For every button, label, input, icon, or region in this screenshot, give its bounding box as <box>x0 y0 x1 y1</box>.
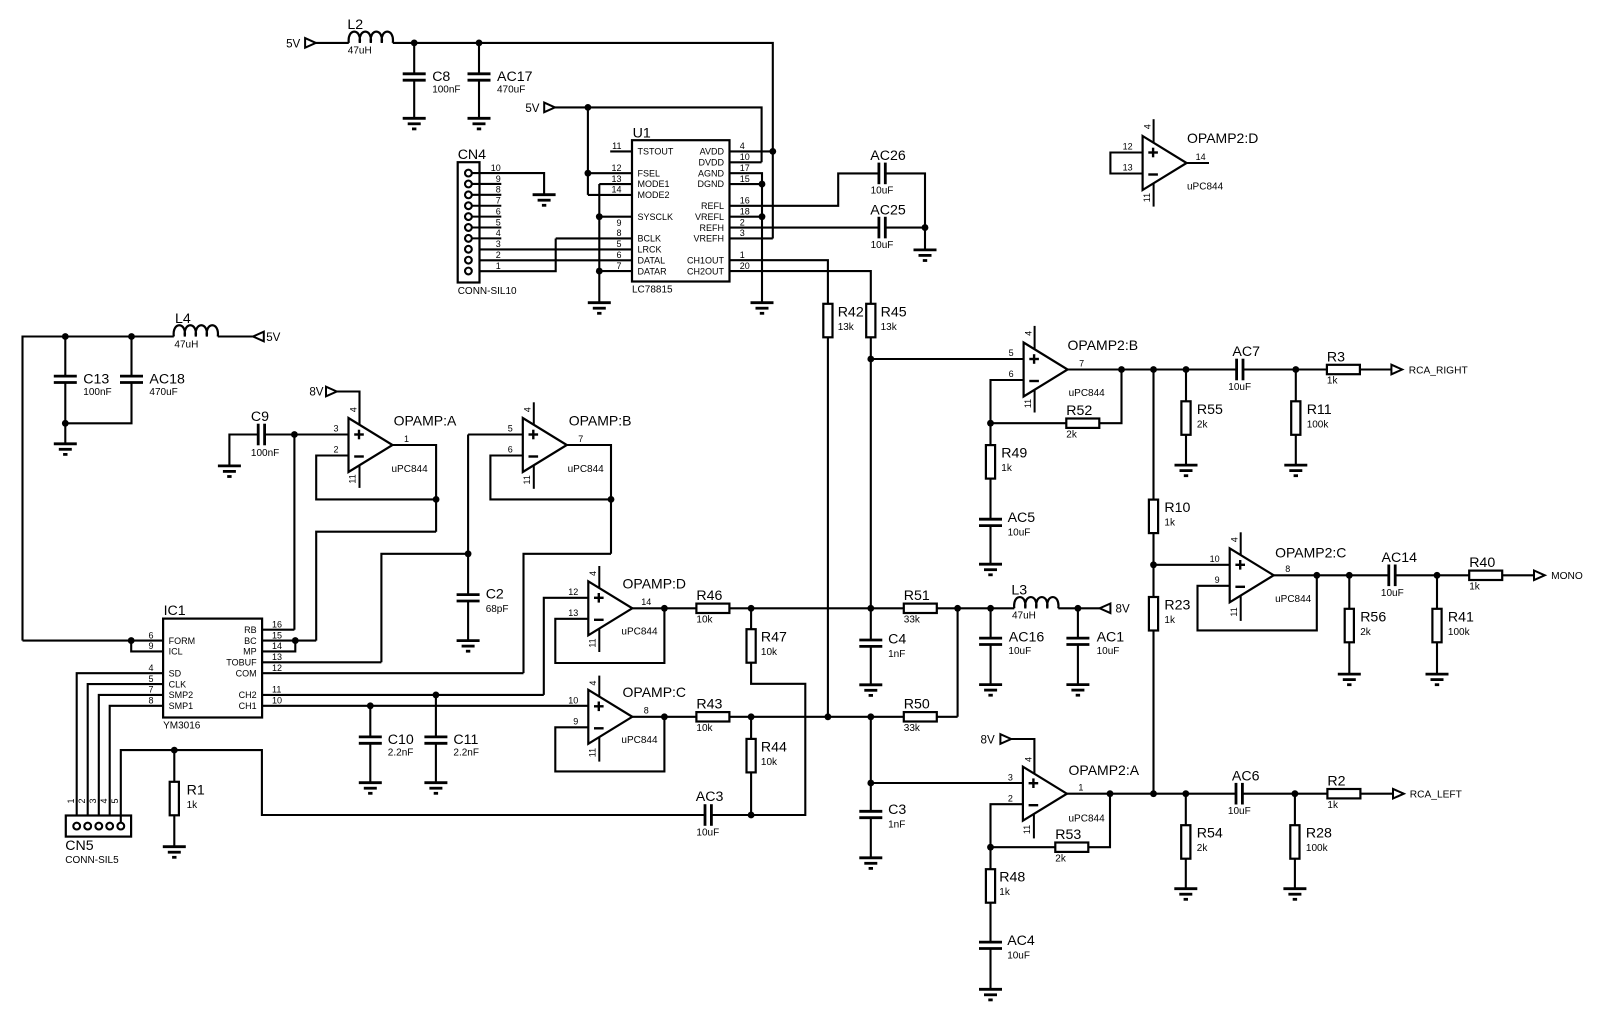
resistor R54 <box>1181 825 1223 859</box>
svg-text:100k: 100k <box>1448 627 1471 638</box>
wire C11 stem <box>435 695 437 737</box>
svg-text:C13: C13 <box>83 371 109 387</box>
svg-text:9: 9 <box>616 218 621 228</box>
CN4 pin 5 stub <box>472 217 502 227</box>
svg-text:2: 2 <box>740 217 745 227</box>
wire C10 stem <box>369 706 371 737</box>
svg-text:1: 1 <box>1078 783 1083 793</box>
resistor R3 <box>1327 349 1360 386</box>
svg-text:CN5: CN5 <box>65 838 93 854</box>
wire OPAMP:D output <box>632 607 696 609</box>
svg-text:100k: 100k <box>1307 419 1330 430</box>
wire C8 stem <box>413 43 415 74</box>
svg-text:SMP2: SMP2 <box>169 690 194 700</box>
node AC16 top <box>987 605 994 612</box>
svg-text:7: 7 <box>616 261 621 271</box>
capacitor C3 <box>859 802 906 831</box>
svg-text:C11: C11 <box>453 732 478 748</box>
node 5V FSEL branch <box>585 104 592 111</box>
wire L3 to 8V <box>1058 607 1099 609</box>
wire R52 left <box>991 422 1067 424</box>
svg-text:8: 8 <box>644 706 649 716</box>
wire AC17 to ground <box>478 80 480 118</box>
svg-text:R10: R10 <box>1164 500 1190 516</box>
svg-text:10: 10 <box>740 152 750 162</box>
svg-text:9: 9 <box>496 174 501 184</box>
svg-text:2.2nF: 2.2nF <box>453 748 479 759</box>
wire 5V to DVDD <box>555 107 762 162</box>
U1 pin 6 DATAL wire from CN4 pin2 <box>472 250 632 260</box>
svg-text:100nF: 100nF <box>83 387 111 398</box>
capacitor C4 <box>859 632 906 661</box>
svg-text:13k: 13k <box>838 322 855 333</box>
svg-text:11: 11 <box>348 474 358 483</box>
wire R48 to AC4 <box>989 903 991 942</box>
ground below AC4 <box>979 989 1002 1000</box>
svg-text:4: 4 <box>1023 757 1033 762</box>
svg-text:CH1OUT: CH1OUT <box>687 255 725 265</box>
node AC1 top <box>1075 605 1082 612</box>
ground below C10 <box>359 783 382 794</box>
U1 pin 8 BCLK wire <box>556 228 632 238</box>
wire R41 to ground <box>1436 642 1438 674</box>
node R41 top <box>1434 572 1441 579</box>
node R47 top <box>748 605 755 612</box>
svg-text:C2: C2 <box>486 587 504 603</box>
op-amp OPAMP:D IC2D <box>568 566 686 652</box>
power flag 8V (OPAMP2:A) <box>981 733 1012 746</box>
svg-text:R46: R46 <box>696 588 722 604</box>
svg-text:10k: 10k <box>696 723 713 734</box>
node C2/TOBUF <box>465 550 472 557</box>
wire RB rail (OPAMP:A+ to IC1 RB) <box>293 435 295 630</box>
svg-text:10: 10 <box>272 696 282 706</box>
svg-text:3: 3 <box>1008 772 1013 782</box>
svg-text:R2: R2 <box>1327 774 1345 790</box>
wire R23 to OPAMP2:A output line <box>1152 631 1154 794</box>
wire R53 left <box>991 846 1056 848</box>
svg-text:C4: C4 <box>888 632 906 648</box>
svg-text:2: 2 <box>1008 793 1013 803</box>
OPAMP:A pin4 label <box>348 407 358 412</box>
wire AC18 stem <box>130 337 132 377</box>
wire OPAMP:B out to COM <box>524 554 612 673</box>
IC1 pin 16 RB wire <box>262 620 294 630</box>
node DGND <box>759 181 766 188</box>
svg-text:TSTOUT: TSTOUT <box>638 147 674 157</box>
IC1 pin 11 CH2 wire <box>262 685 544 695</box>
node R56 top <box>1346 572 1353 579</box>
node SYSCLK gnd rail <box>596 213 603 220</box>
ground below U1 right rail <box>751 303 774 314</box>
wire R53 to output <box>1088 794 1110 848</box>
ground below AC16 <box>979 685 1002 696</box>
svg-text:L3: L3 <box>1011 583 1027 599</box>
svg-text:8: 8 <box>496 185 501 195</box>
wire AC7 to R3 <box>1243 368 1327 370</box>
svg-text:OPAMP:C: OPAMP:C <box>623 684 687 700</box>
node OPAMP:B feedback <box>608 496 615 503</box>
svg-text:5V: 5V <box>525 102 539 115</box>
svg-text:3: 3 <box>740 228 745 238</box>
resistor R10 <box>1149 500 1191 533</box>
node C3/OPAMP2:A+ <box>867 780 874 787</box>
svg-text:1: 1 <box>740 250 745 260</box>
svg-text:uPC844: uPC844 <box>621 735 658 746</box>
svg-text:10uF: 10uF <box>696 827 719 838</box>
svg-text:LC78815: LC78815 <box>632 285 673 296</box>
wire C13 bottom <box>64 383 66 444</box>
svg-text:100nF: 100nF <box>432 85 460 96</box>
svg-text:18: 18 <box>740 206 750 216</box>
U1 pin 7 DATAR wire <box>599 261 632 271</box>
wire R11 to ground <box>1295 435 1297 465</box>
wire OPAMP2:B output <box>1068 368 1237 370</box>
node DATAR gnd rail <box>596 268 603 275</box>
wire C3 to ground <box>870 818 872 858</box>
op-amp OPAMP:A IC2A <box>333 413 457 488</box>
wire R3 to RCA_RIGHT <box>1360 368 1392 370</box>
svg-text:2k: 2k <box>1197 843 1209 854</box>
svg-text:CH2OUT: CH2OUT <box>687 266 725 276</box>
wire AC14 to R40 <box>1395 574 1469 576</box>
U1 pin 10 DVDD wire <box>730 152 762 162</box>
svg-text:10k: 10k <box>761 757 778 768</box>
wire R47 to AC3 line <box>711 663 805 815</box>
svg-text:11: 11 <box>522 475 532 484</box>
resistor R50 <box>904 697 937 734</box>
resistor R49 <box>986 445 1028 479</box>
U1 pin 3 VREFH wire <box>730 228 773 238</box>
U1 pin 12 FSEL wire <box>588 163 632 173</box>
op-amp OPAMP2:C U2C <box>1210 532 1347 621</box>
ground below C13 <box>54 444 77 455</box>
U1 pin 16 REFL wire to AC26 <box>730 173 879 205</box>
node FSEL <box>585 170 592 177</box>
power flag 8V (L3) <box>1100 602 1130 615</box>
svg-text:DATAL: DATAL <box>638 255 666 265</box>
svg-text:5: 5 <box>616 239 621 249</box>
svg-text:AGND: AGND <box>698 168 725 178</box>
wire R54 to ground <box>1185 859 1187 889</box>
svg-text:6: 6 <box>508 445 513 455</box>
svg-text:5V: 5V <box>286 37 300 50</box>
svg-text:4: 4 <box>588 571 598 576</box>
svg-text:LRCK: LRCK <box>638 245 662 255</box>
svg-text:CH2: CH2 <box>239 690 257 700</box>
IC IC1 YM3016 <box>163 603 262 732</box>
wire OPAMP:A output down <box>393 445 437 532</box>
ground below AC5 <box>979 564 1002 575</box>
svg-text:6: 6 <box>148 630 153 640</box>
capacitor AC18 <box>120 371 185 398</box>
svg-text:5V: 5V <box>266 331 280 344</box>
CN5 pin5 wire to AC3 line <box>121 750 705 823</box>
U1 pin 5 LRCK wire from CN4 pin3 <box>472 239 632 249</box>
resistor R28 stem <box>1294 794 1296 826</box>
svg-text:OPAMP2:D: OPAMP2:D <box>1187 130 1258 146</box>
svg-text:4: 4 <box>496 228 501 238</box>
node C13/AC18 junction <box>62 420 69 427</box>
node R48/R53 <box>987 844 994 851</box>
resistor R42 <box>823 304 864 338</box>
wire R49 to AC5 <box>989 479 991 520</box>
op-amp OPAMP2:D U2D <box>1123 119 1259 206</box>
node OPAMP:A feedback <box>433 496 440 503</box>
svg-text:R1: R1 <box>187 782 205 798</box>
capacitor AC16 <box>979 630 1044 658</box>
svg-text:11: 11 <box>1142 193 1152 202</box>
wire R56 to ground <box>1348 642 1350 674</box>
ground below C11 <box>424 783 447 794</box>
wire AC1 stem <box>1077 608 1079 638</box>
node R10 column top <box>1150 366 1157 373</box>
svg-text:MONO: MONO <box>1551 571 1583 582</box>
svg-text:BCLK: BCLK <box>638 234 662 244</box>
svg-text:6: 6 <box>496 206 501 216</box>
svg-text:470uF: 470uF <box>149 387 177 398</box>
wire AC16 to ground <box>990 645 992 685</box>
svg-text:13: 13 <box>568 608 578 618</box>
svg-text:MODE2: MODE2 <box>638 190 670 200</box>
node OPAMP2:B feedback <box>1118 366 1125 373</box>
ground below U1 left rail <box>588 303 611 314</box>
svg-text:12: 12 <box>611 163 621 173</box>
svg-text:R43: R43 <box>696 697 722 713</box>
node C11 top <box>433 692 440 699</box>
svg-text:R50: R50 <box>904 697 930 713</box>
svg-text:OPAMP2:A: OPAMP2:A <box>1069 762 1140 778</box>
node OPAMP:A +input / RB <box>291 431 298 438</box>
node R49/R52 <box>987 420 994 427</box>
svg-text:R11: R11 <box>1307 402 1332 418</box>
svg-text:8V: 8V <box>309 386 323 399</box>
resistor R41 <box>1432 609 1474 643</box>
power flag 5V (above U1) <box>525 102 555 115</box>
resistor R52 <box>1066 403 1099 440</box>
IC1 pin 5 CLK wire to CN5 pin2 <box>88 674 163 823</box>
wire OPAMP2:C +input <box>1154 564 1230 566</box>
resistor R56 stem <box>1348 575 1350 609</box>
svg-text:16: 16 <box>740 196 750 206</box>
svg-text:OPAMP:D: OPAMP:D <box>623 575 687 591</box>
svg-text:3: 3 <box>496 239 501 249</box>
svg-text:10uF: 10uF <box>1007 950 1030 961</box>
wire R45 to OPAMP:D output line <box>870 337 872 608</box>
ground below R28 <box>1283 889 1306 900</box>
svg-text:AC16: AC16 <box>1009 630 1045 646</box>
U1 pin 1 CH1OUT wire to R42 <box>730 250 828 304</box>
resistor R41 stem <box>1436 575 1438 609</box>
svg-text:11: 11 <box>587 638 597 647</box>
net flag MONO <box>1534 571 1583 583</box>
svg-text:47uH: 47uH <box>1012 610 1036 621</box>
resistor R23 <box>1149 597 1191 631</box>
svg-text:13: 13 <box>1123 163 1133 173</box>
node BC/MP <box>292 637 299 644</box>
svg-text:3: 3 <box>333 424 338 434</box>
svg-text:4: 4 <box>1023 331 1033 336</box>
svg-text:10uF: 10uF <box>1228 382 1251 393</box>
node R23 bottom <box>1150 790 1157 797</box>
svg-text:uPC844: uPC844 <box>1069 813 1106 824</box>
svg-text:2: 2 <box>333 445 338 455</box>
U1 pin 18 VREFL wire <box>730 206 763 216</box>
svg-text:5: 5 <box>508 424 513 434</box>
svg-text:9: 9 <box>573 717 578 727</box>
CN4 pin 2 number <box>496 250 501 260</box>
op-amp OPAMP:B IC2B <box>508 402 632 489</box>
U1 pin 13 MODE1 wire <box>599 174 632 184</box>
svg-text:CONN-SIL5: CONN-SIL5 <box>65 855 119 866</box>
svg-text:68pF: 68pF <box>486 604 509 615</box>
wire OPAMP:C output <box>632 716 696 718</box>
wire C3 stem <box>870 717 872 812</box>
node R42 bottom <box>825 713 832 720</box>
svg-text:AC4: AC4 <box>1007 933 1035 949</box>
wire 8V to OPAMP:A pin4 <box>337 392 360 426</box>
IC1 pin 15 BC wire <box>262 630 316 640</box>
resistor R2 <box>1327 774 1360 811</box>
wire R47 stem <box>750 608 752 629</box>
svg-text:OPAMP:B: OPAMP:B <box>569 413 632 429</box>
svg-text:R23: R23 <box>1164 598 1190 614</box>
svg-text:C10: C10 <box>388 732 414 748</box>
CN4 pin 3 number <box>496 239 501 249</box>
svg-text:R42: R42 <box>838 304 864 320</box>
wire CH2 riser to OPAMP:D +input <box>544 598 589 695</box>
svg-text:L4: L4 <box>175 311 191 327</box>
wire R51 to L3 <box>937 607 1015 609</box>
svg-text:TOBUF: TOBUF <box>226 658 257 668</box>
svg-text:13: 13 <box>272 652 282 662</box>
wire OPAMP2:D output stub <box>1187 162 1209 164</box>
node R44 top <box>748 713 755 720</box>
wire OPAMP2:C -input loop <box>1198 575 1317 630</box>
svg-text:2k: 2k <box>1360 627 1372 638</box>
wire MODE1/SYSCLK/DATAR ground rail <box>598 184 600 303</box>
capacitor C8 <box>403 69 461 96</box>
node at C8 <box>411 40 418 47</box>
wire C11 to ground <box>435 743 437 782</box>
svg-text:14: 14 <box>641 597 651 607</box>
capacitor C9 <box>251 409 279 459</box>
svg-text:11: 11 <box>272 685 281 695</box>
ground below R1 <box>163 847 186 858</box>
svg-text:10uF: 10uF <box>871 240 894 251</box>
U1 pin 2 REFH wire to AC25 <box>730 217 879 227</box>
resistor R53 <box>1055 827 1088 864</box>
svg-text:10: 10 <box>568 696 578 706</box>
svg-text:13: 13 <box>611 174 621 184</box>
svg-text:R49: R49 <box>1001 446 1027 462</box>
capacitor C11 <box>424 732 479 759</box>
svg-text:AC17: AC17 <box>497 69 533 85</box>
svg-text:15: 15 <box>272 630 282 640</box>
ground below R11 <box>1284 465 1307 476</box>
node R50/R51 tie <box>954 605 961 612</box>
svg-text:COM: COM <box>236 668 257 678</box>
wire 5V to L2 <box>316 42 349 44</box>
svg-text:R3: R3 <box>1327 349 1345 365</box>
svg-text:5: 5 <box>148 674 153 684</box>
wire OPAMP:C -input loop <box>555 717 664 772</box>
op-amp OPAMP2:A U2A <box>1008 762 1140 838</box>
power flag 5V (top left) <box>286 37 316 50</box>
svg-text:1k: 1k <box>1164 615 1176 626</box>
svg-text:7: 7 <box>496 196 501 206</box>
svg-text:5: 5 <box>110 798 120 803</box>
svg-text:RCA_LEFT: RCA_LEFT <box>1410 790 1462 801</box>
inductor L3 <box>1011 583 1058 622</box>
resistor R48 <box>986 869 1026 903</box>
svg-text:uPC844: uPC844 <box>621 627 658 638</box>
svg-text:AC5: AC5 <box>1008 510 1036 526</box>
svg-text:uPC844: uPC844 <box>392 464 429 475</box>
wire OPAMP:B + down to C2 <box>467 435 469 595</box>
svg-text:2.2nF: 2.2nF <box>388 748 414 759</box>
svg-text:2k: 2k <box>1055 853 1067 864</box>
wire R52 to output <box>1099 370 1121 424</box>
ground below R41 <box>1426 674 1449 685</box>
node R44/AC3 <box>748 812 755 819</box>
power flag 8V (OPAMP:A) <box>309 386 336 399</box>
svg-text:1: 1 <box>66 798 76 803</box>
svg-text:C8: C8 <box>432 69 450 85</box>
svg-text:DATAR: DATAR <box>638 266 668 276</box>
wire OPAMP2:A output <box>1067 793 1236 795</box>
svg-text:OPAMP2:C: OPAMP2:C <box>1275 544 1346 560</box>
wire BCLK to CN4 pin1 <box>472 238 556 271</box>
node R11 top <box>1292 366 1299 373</box>
svg-text:8: 8 <box>1285 564 1290 574</box>
svg-text:IC1: IC1 <box>164 603 186 619</box>
svg-text:13k: 13k <box>881 322 898 333</box>
IC1 pin 12 COM wire <box>262 663 523 673</box>
U1 pin 14 MODE2 wire <box>588 185 632 195</box>
node OPAMP2:A feedback <box>1107 790 1114 797</box>
svg-text:FORM: FORM <box>169 636 196 646</box>
svg-text:10: 10 <box>491 163 501 173</box>
svg-text:1k: 1k <box>1001 463 1013 474</box>
wire OPAMP:B output down <box>567 445 611 554</box>
wire OPAMP2:A -input loop <box>991 804 1023 869</box>
wire OPAMP2:C output <box>1274 574 1389 576</box>
ground below R56 <box>1338 674 1361 685</box>
svg-text:8: 8 <box>148 696 153 706</box>
svg-text:11: 11 <box>612 141 621 151</box>
connector CN4 CONN-SIL10 <box>458 147 517 297</box>
CN4 pin 8 stub <box>472 185 502 195</box>
node C10 top <box>367 702 374 709</box>
resistor R40 <box>1469 555 1502 592</box>
svg-text:4: 4 <box>588 681 598 686</box>
svg-text:SYSCLK: SYSCLK <box>638 212 674 222</box>
node R1 top <box>171 747 178 754</box>
svg-text:47uH: 47uH <box>348 46 372 57</box>
wire OPAMP:A out to BC rail <box>316 532 436 641</box>
svg-text:4: 4 <box>1230 537 1240 542</box>
node R45/OPAMP2:B+ <box>867 356 874 363</box>
svg-text:100k: 100k <box>1306 843 1329 854</box>
svg-text:1nF: 1nF <box>888 649 905 660</box>
svg-text:7: 7 <box>1079 358 1084 368</box>
wire AC4 to ground <box>989 949 991 990</box>
svg-text:7: 7 <box>148 685 153 695</box>
node VREFL <box>759 213 766 220</box>
svg-text:R56: R56 <box>1360 609 1386 625</box>
CN4 pin 4 stub <box>472 228 502 238</box>
